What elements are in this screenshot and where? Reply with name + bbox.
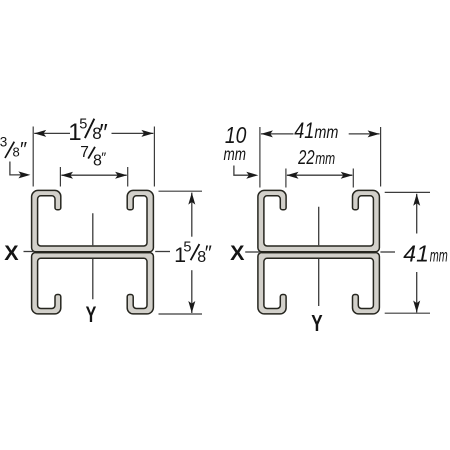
- extension line top right, left diagram: [159, 190, 203, 192]
- svg-text:Y: Y: [86, 302, 97, 327]
- fraction slash 3/8: [5, 142, 14, 158]
- dimension text 1-5/8 inch top: [68, 117, 108, 147]
- svg-text:mm: mm: [430, 246, 448, 266]
- svg-text:mm: mm: [314, 122, 338, 142]
- weld seam left channel: [35, 251, 149, 253]
- dimension line 41mm width, left segment: [261, 133, 294, 135]
- svg-text:″: ″: [20, 139, 27, 161]
- dimension line 41mm height, top segment: [416, 194, 418, 234]
- svg-text:22: 22: [297, 147, 314, 169]
- svg-text:mm: mm: [315, 150, 335, 168]
- X-axis dash right diagram, left side: [245, 251, 259, 253]
- dimension text 22mm: [297, 147, 335, 169]
- X-axis dash left diagram, left side: [24, 251, 35, 253]
- extension line left lip: [59, 167, 61, 187]
- extension line left outer edge metric: [259, 127, 261, 188]
- svg-text:″: ″: [99, 120, 108, 147]
- strut channel profile left (top half): [32, 190, 154, 251]
- svg-text:″: ″: [205, 243, 212, 265]
- extension line right lip metric: [352, 169, 354, 188]
- extension line bottom right, left diagram: [159, 313, 203, 315]
- svg-text:3: 3: [0, 135, 7, 150]
- fraction slash 5/8 right: [191, 244, 200, 260]
- dimension text 41mm top: [294, 118, 338, 143]
- dimension line 1-5/8 inch width, right segment: [112, 132, 154, 134]
- svg-text:X: X: [4, 241, 19, 265]
- centerline Y-axis left: [92, 213, 94, 299]
- dimension line 7/8 inch opening: [61, 174, 126, 176]
- svg-text:mm: mm: [224, 144, 247, 164]
- svg-text:8: 8: [13, 145, 20, 160]
- dimension line 1-5/8 inch height, bottom segment: [191, 270, 193, 313]
- dimension text 10 mm: [224, 122, 247, 164]
- svg-text:7: 7: [80, 144, 89, 161]
- X-axis dash right diagram, right side: [380, 251, 395, 253]
- dimension text 41mm right: [403, 241, 448, 267]
- strut channel profile right (bottom half): [258, 253, 380, 314]
- X-axis dash left diagram, right side: [155, 251, 170, 253]
- fraction slash 7/8: [88, 147, 95, 159]
- svg-text:41: 41: [294, 118, 314, 143]
- leader elbow 10mm: [234, 166, 250, 176]
- extension line bottom right, metric diagram: [385, 312, 430, 314]
- dimension text 7/8 inch: [80, 144, 106, 169]
- dimension line 22mm opening: [287, 174, 352, 176]
- extension line right lip: [127, 167, 129, 187]
- dimension line 1-5/8 inch width, left segment: [34, 132, 70, 134]
- weld seam right channel: [262, 251, 376, 253]
- dimension line 1-5/8 inch height, top segment: [191, 193, 193, 237]
- extension line left outer edge: [32, 127, 34, 187]
- strut channel profile left (bottom half): [32, 253, 154, 314]
- extension line top right, metric diagram: [385, 191, 430, 193]
- svg-text:5: 5: [183, 239, 191, 255]
- svg-text:″: ″: [101, 149, 106, 165]
- dimension line 41mm height, bottom segment: [416, 272, 418, 313]
- svg-text:Y: Y: [311, 310, 322, 336]
- dimension text 3/8 inch: [0, 135, 27, 161]
- svg-text:41: 41: [403, 241, 429, 267]
- extension line right outer edge: [153, 127, 155, 187]
- dimension line 41mm width, right segment: [349, 133, 380, 135]
- svg-text:5: 5: [79, 117, 87, 133]
- svg-text:X: X: [230, 241, 245, 265]
- fraction slash 5/8 top: [85, 119, 94, 138]
- centerline Y-axis right: [318, 207, 320, 306]
- extension line right outer edge metric: [380, 127, 382, 187]
- extension line left lip metric: [285, 169, 287, 188]
- strut channel profile right (top half): [258, 190, 380, 251]
- dimension text 1-5/8 inch right: [174, 239, 212, 267]
- leader elbow 3/8 inch: [10, 162, 23, 175]
